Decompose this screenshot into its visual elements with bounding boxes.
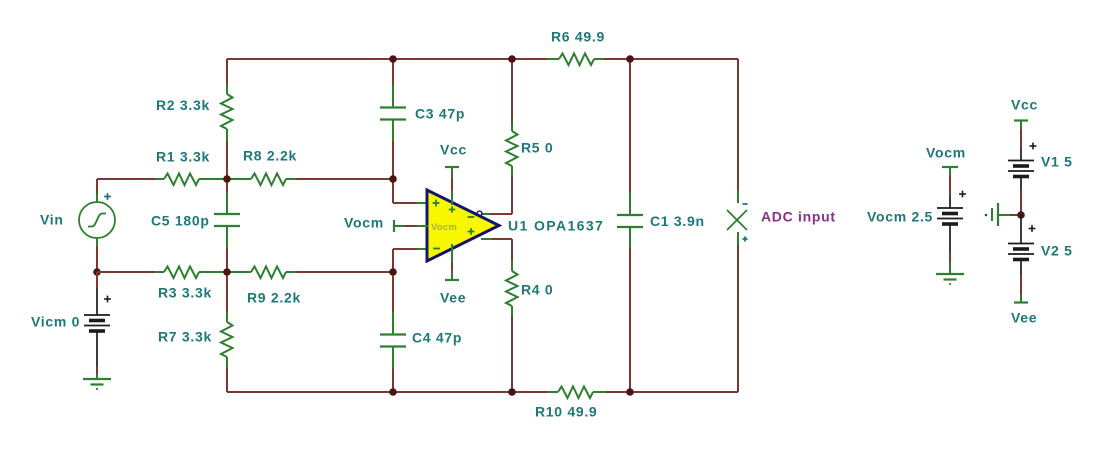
node top rail R5 xyxy=(508,55,516,63)
ground below Vicm xyxy=(83,378,111,380)
svg-text:R5 0: R5 0 xyxy=(521,140,553,156)
svg-text:Vocm 2.5: Vocm 2.5 xyxy=(867,209,933,225)
wire right column bottom xyxy=(737,232,739,245)
resistor R5 0 xyxy=(511,59,513,122)
svg-text:Vcc: Vcc xyxy=(1011,97,1038,113)
node row2 junction xyxy=(223,268,231,276)
op-amp Vee pin xyxy=(451,244,453,262)
svg-text:Vocm: Vocm xyxy=(344,215,384,231)
svg-text:R8 2.2k: R8 2.2k xyxy=(243,148,297,164)
svg-text:R10 49.9: R10 49.9 xyxy=(535,404,597,420)
wire row2 right xyxy=(296,271,393,273)
wire battery to ground xyxy=(96,331,98,366)
wire Vin bottom xyxy=(96,238,98,246)
wire Vin drop xyxy=(96,179,98,194)
wire opamp in+ xyxy=(392,179,394,203)
wire row1 right xyxy=(296,178,393,180)
capacitor C4 xyxy=(392,275,394,312)
battery Vocm 2.5 xyxy=(949,167,951,175)
svg-text:R9 2.2k: R9 2.2k xyxy=(247,290,301,306)
svg-text:Vocm: Vocm xyxy=(431,222,457,233)
node row2 left junction xyxy=(93,268,101,276)
resistor R9 xyxy=(230,271,251,273)
battery V2 5 xyxy=(1029,228,1036,230)
svg-text:Vee: Vee xyxy=(1011,310,1037,326)
svg-text:R6 49.9: R6 49.9 xyxy=(551,29,605,45)
resistor R7 xyxy=(226,275,228,312)
ADC input cross xyxy=(727,210,747,230)
svg-text:R3 3.3k: R3 3.3k xyxy=(158,285,212,301)
capacitor C5 xyxy=(226,182,228,192)
wire out+ to R4 xyxy=(492,238,512,240)
wire right column top xyxy=(737,59,739,190)
op-amp U1 OPA1637 xyxy=(427,190,499,261)
svg-text:Vcc: Vcc xyxy=(440,142,467,158)
svg-text:Vin: Vin xyxy=(40,212,64,228)
node top rail C1 xyxy=(626,55,634,63)
wire out- to R5 xyxy=(490,213,512,215)
svg-text:V1 5: V1 5 xyxy=(1041,154,1073,170)
node bottom rail C4 xyxy=(389,388,397,396)
node supply midpoint xyxy=(1017,211,1025,219)
svg-text:R2 3.3k: R2 3.3k xyxy=(156,97,210,113)
wire top rail right segment xyxy=(604,58,738,60)
resistor R4 0 xyxy=(511,239,513,260)
svg-text:C3 47p: C3 47p xyxy=(415,106,465,122)
capacitor C3 xyxy=(392,59,394,85)
svg-text:U1 OPA1637: U1 OPA1637 xyxy=(508,218,604,234)
wire top rail left segment xyxy=(227,58,547,60)
svg-text:Vicm 0: Vicm 0 xyxy=(31,314,80,330)
resistor R8 xyxy=(230,178,251,180)
wire left column top xyxy=(226,59,228,85)
jumper into supply midpoint xyxy=(985,214,988,217)
node C3/R8 junction xyxy=(389,175,397,183)
svg-text:C4 47p: C4 47p xyxy=(412,330,462,346)
svg-text:R4 0: R4 0 xyxy=(521,282,553,298)
svg-text:Vocm: Vocm xyxy=(926,145,966,161)
node C4/R9 junction xyxy=(389,268,397,276)
svg-text:Vee: Vee xyxy=(440,290,466,306)
node top rail C3 xyxy=(389,55,397,63)
resistor R10 49.9 xyxy=(548,391,558,393)
svg-text:ADC input: ADC input xyxy=(761,209,836,225)
svg-text:R7 3.3k: R7 3.3k xyxy=(158,329,212,345)
battery Vicm 0 xyxy=(84,314,110,316)
resistor R2 xyxy=(226,85,228,94)
resistor R3 xyxy=(97,271,155,273)
node row1 junction xyxy=(223,175,231,183)
resistor R6 49.9 xyxy=(547,58,559,60)
svg-text:V2 5: V2 5 xyxy=(1041,243,1073,259)
resistor R1 xyxy=(155,178,164,180)
wire to Vicm battery xyxy=(96,272,98,288)
node bottom rail R4 xyxy=(508,388,516,396)
svg-text:C5 180p: C5 180p xyxy=(151,213,210,229)
wire opamp in- xyxy=(392,249,394,272)
node bottom rail C1 xyxy=(626,388,634,396)
op-amp Vcc pin xyxy=(445,166,459,168)
capacitor C1 3.9n xyxy=(629,59,631,193)
wire bottom rail right xyxy=(606,391,738,393)
ground below Vocm battery xyxy=(936,273,964,275)
svg-text:C1 3.9n: C1 3.9n xyxy=(650,213,705,229)
wire row1 left xyxy=(97,178,155,180)
svg-text:R1 3.3k: R1 3.3k xyxy=(156,149,210,165)
battery V1 5 xyxy=(1020,121,1022,130)
wire bottom rail left xyxy=(227,391,548,393)
source Vin xyxy=(79,202,115,238)
